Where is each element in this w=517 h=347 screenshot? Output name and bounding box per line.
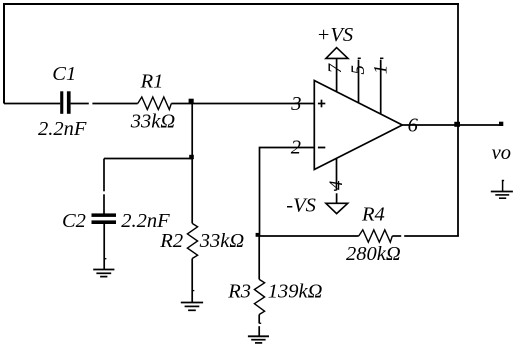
op-amp U1	[314, 81, 402, 170]
svg-text:4: 4	[326, 180, 347, 190]
svg-text:C2: C2	[62, 210, 86, 232]
svg-text:33kΩ: 33kΩ	[130, 110, 176, 132]
pin 5 label rotated	[348, 65, 369, 75]
node C junction square	[256, 233, 260, 237]
svg-text:7: 7	[325, 62, 346, 73]
svg-text:280kΩ: 280kΩ	[346, 243, 401, 265]
hook on R3 wire	[259, 322, 261, 324]
svg-text:5: 5	[348, 65, 369, 75]
junction square at output/feedback	[454, 122, 460, 127]
wire break to right side	[404, 235, 459, 237]
wire break to R1	[92, 103, 137, 105]
pin 4 wire hook	[334, 189, 337, 191]
wire node B down to R2	[191, 159, 193, 224]
wire R1 to op-amp pin 3	[171, 103, 314, 105]
+VS symbol	[326, 48, 348, 59]
pin 7 wire to +VS	[336, 58, 338, 91]
wire R4 to break	[392, 235, 401, 237]
pin 3 label	[290, 93, 301, 115]
svg-text:R3: R3	[227, 281, 251, 303]
wire C2 to ground	[103, 224, 105, 269]
node A junction square	[189, 99, 194, 104]
svg-text:6: 6	[408, 115, 419, 137]
-VS symbol	[326, 203, 348, 213]
ground under R2	[181, 303, 203, 311]
value 280k for R4	[346, 243, 401, 265]
svg-text:C1: C1	[52, 63, 76, 85]
wire R2 to ground	[191, 259, 193, 303]
pin 2 label	[291, 136, 301, 158]
tick on R2 ground wire	[192, 290, 194, 292]
label C1	[52, 63, 76, 85]
wire left side down	[3, 3, 5, 104]
svg-text:3: 3	[290, 93, 301, 115]
output endpoint square	[499, 122, 503, 126]
+VS label	[317, 24, 354, 46]
label R4	[361, 203, 385, 225]
pin 1 no-connect stub	[380, 58, 383, 114]
node B junction square	[189, 155, 194, 159]
svg-text:1: 1	[370, 65, 391, 75]
ground near vo	[491, 181, 513, 199]
wire node C down to R3	[258, 236, 260, 279]
wire node B to C2 branch	[104, 158, 192, 160]
wire node C to R4	[260, 235, 359, 237]
-VS label	[286, 195, 316, 217]
pin 4 label rotated	[326, 180, 347, 190]
ground under C2	[93, 270, 114, 277]
op-amp minus input mark	[318, 147, 325, 149]
svg-text:-VS: -VS	[286, 195, 316, 217]
label C2	[62, 210, 86, 232]
wire op-amp output pin 6	[402, 124, 503, 126]
resistor R3	[254, 279, 264, 314]
pin 1 label rotated	[370, 65, 391, 75]
value 33k for R2	[199, 230, 245, 252]
pin 4 wire stub to -VS	[336, 193, 338, 203]
wire left to C1	[4, 103, 60, 105]
wire top feedback run	[3, 3, 459, 5]
wire node A down	[191, 104, 193, 159]
label R3	[227, 281, 251, 303]
value 33k for R1	[130, 110, 176, 132]
label R2	[159, 230, 183, 252]
wire op-amp pin 2	[260, 148, 315, 237]
label R1	[140, 70, 164, 92]
wire R3 to ground	[258, 326, 260, 336]
ground under R3	[248, 336, 269, 343]
svg-text:2.2nF: 2.2nF	[38, 118, 87, 140]
pin 5 no-connect stub	[358, 58, 361, 103]
svg-text:2: 2	[291, 136, 301, 158]
tick on C2 ground wire	[104, 258, 106, 260]
value 2.2nF for C1	[38, 118, 87, 140]
pin 4 wire upper	[336, 158, 338, 190]
svg-text:+VS: +VS	[317, 24, 354, 46]
pin 7 label rotated	[325, 62, 346, 73]
vo label	[492, 142, 511, 164]
resistor R1	[138, 97, 172, 110]
pin 6 label	[408, 115, 419, 137]
value 2.2nF for C2	[121, 210, 170, 232]
wire to C2 top	[103, 194, 105, 213]
capacitor C2	[92, 213, 117, 224]
value 139k for R3	[268, 281, 323, 303]
op-amp plus input mark	[318, 100, 325, 108]
svg-text:R1: R1	[140, 70, 164, 92]
wire C2 branch down upper	[103, 159, 105, 192]
svg-text:R2: R2	[159, 230, 183, 252]
capacitor C1	[60, 91, 70, 114]
wire R3 down upper	[258, 315, 260, 324]
svg-text:139kΩ: 139kΩ	[268, 281, 323, 303]
wire C1 to break	[71, 103, 89, 105]
svg-text:R4: R4	[361, 203, 385, 225]
svg-text:2.2nF: 2.2nF	[121, 210, 170, 232]
wire right side vertical	[457, 3, 459, 236]
svg-text:33kΩ: 33kΩ	[199, 230, 245, 252]
resistor R4	[359, 230, 393, 242]
svg-text:vo: vo	[492, 142, 511, 164]
resistor R2	[187, 223, 197, 258]
